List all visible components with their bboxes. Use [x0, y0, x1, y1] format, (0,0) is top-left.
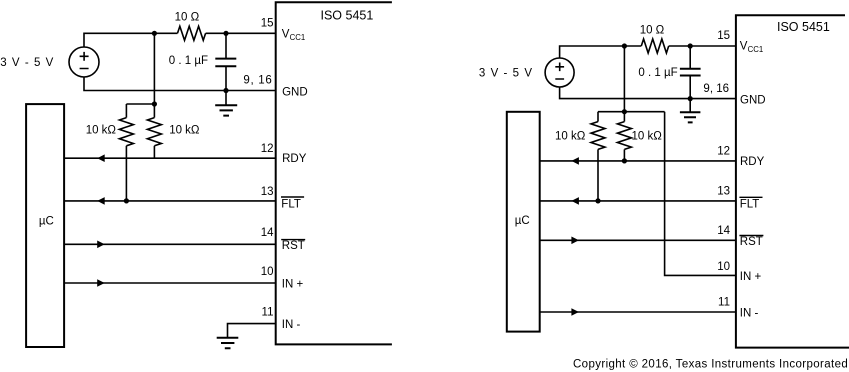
arrow into uC on FLT (right)	[571, 197, 579, 205]
svg-text:10: 10	[717, 261, 730, 273]
wire FLT net (right)	[540, 200, 736, 202]
arrow into uC on RDY (right)	[571, 157, 579, 165]
svg-text:13: 13	[717, 186, 730, 198]
svg-text:10 kΩ: 10 kΩ	[169, 125, 200, 137]
svg-text:RST: RST	[282, 240, 305, 252]
arrow into uC on RDY (left)	[97, 154, 105, 162]
svg-text:FLT: FLT	[281, 199, 301, 211]
svg-text:11: 11	[718, 297, 730, 309]
microcontroller block uC (right)	[507, 112, 540, 332]
junction dot: pullup top (right)	[622, 109, 627, 114]
arrow into uC on FLT (left)	[97, 197, 105, 205]
pin name FLT with overline (left)	[281, 197, 304, 211]
junction dot: capacitor/ground tap on GND rail (left)	[223, 88, 228, 93]
svg-text:V: V	[740, 40, 748, 52]
svg-text:ISO 5451: ISO 5451	[777, 20, 830, 34]
svg-text:12: 12	[717, 146, 730, 158]
wire: source bottom to GND pin (left GND rail)	[84, 77, 276, 91]
svg-text:10 Ω: 10 Ω	[640, 25, 665, 37]
junction dot: R5 bottom on FLT net (right)	[595, 198, 600, 203]
IC body U2 ISO 5451 (right, clipped at image edge)	[736, 15, 849, 347]
svg-text:CC1: CC1	[290, 33, 306, 42]
wire RDY net (left)	[64, 157, 276, 159]
voltage source V2 3V-5V (right)	[545, 58, 574, 87]
junction dot: capacitor/ground tap on GND rail (right)	[688, 96, 693, 101]
microcontroller block uC (left)	[26, 104, 64, 347]
resistor R2 10 kOhm (left pullup to FLT)	[119, 104, 133, 201]
svg-text:IN -: IN -	[282, 319, 301, 331]
wire FLT net (left)	[64, 200, 276, 202]
arrow toward IC on IN- (right)	[571, 308, 579, 316]
resistor R5 10 kOhm (right pullup to FLT)	[591, 112, 605, 201]
resistor R6 10 kOhm (right pullup to RDY)	[617, 112, 631, 161]
wire RST net (left)	[64, 243, 276, 245]
wire RDY net (right)	[540, 160, 736, 162]
wire IN+ net (left)	[64, 282, 276, 284]
svg-text:14: 14	[261, 227, 274, 239]
wire: resistor to VCC1 pin 15 (right)	[669, 45, 736, 47]
svg-text:9, 16: 9, 16	[703, 83, 729, 95]
svg-text:ISO 5451: ISO 5451	[321, 8, 374, 22]
svg-text:10 Ω: 10 Ω	[175, 11, 200, 23]
wire RST net (right)	[540, 239, 736, 241]
svg-text:0 . 1 µF: 0 . 1 µF	[638, 67, 677, 79]
resistor R1 10 Ohm (left)	[178, 26, 206, 40]
capacitor C2 0.1uF (right)	[680, 46, 701, 99]
wire: source top to resistor (left VCC rail)	[84, 33, 178, 47]
svg-text:10 kΩ: 10 kΩ	[86, 125, 117, 137]
wire: source top to resistor (right VCC rail)	[560, 46, 642, 58]
svg-text:IN +: IN +	[282, 279, 304, 291]
svg-text:GND: GND	[740, 94, 766, 106]
wire IN- net (right)	[540, 311, 736, 313]
svg-text:IN +: IN +	[740, 271, 762, 283]
svg-text:µC: µC	[515, 215, 530, 227]
junction dot: source/pullup tap on VCC rail (right)	[622, 43, 627, 48]
svg-text:CC1: CC1	[748, 45, 764, 54]
junction dot: capacitor top tap (right)	[688, 43, 693, 48]
wire: pullup top rail (left)	[126, 103, 154, 105]
svg-text:0 . 1 µF: 0 . 1 µF	[169, 55, 208, 67]
svg-text:IN -: IN -	[740, 308, 759, 320]
junction dot: capacitor top tap (left)	[223, 31, 228, 36]
svg-text:13: 13	[261, 186, 274, 198]
junction dot: R2 bottom on FLT net (left)	[124, 198, 129, 203]
svg-text:3 V - 5 V: 3 V - 5 V	[0, 57, 54, 69]
svg-text:15: 15	[717, 30, 730, 42]
capacitor C1 0.1uF (left)	[215, 33, 236, 90]
svg-text:RDY: RDY	[282, 153, 307, 165]
wire: source bottom to GND pin (right GND rail)	[560, 87, 736, 99]
wire IN- net to ground (left)	[228, 324, 276, 338]
pin name RST with overline (right)	[739, 236, 763, 249]
svg-text:µC: µC	[39, 216, 54, 228]
wire: resistor to VCC1 pin 15 (left)	[206, 32, 276, 34]
svg-text:10: 10	[261, 266, 274, 278]
svg-text:FLT: FLT	[740, 199, 760, 211]
wire: VCC tap down to pullup junction (left)	[153, 33, 155, 104]
IC body U1 ISO 5451 (left, open right side)	[276, 2, 392, 344]
svg-text:3 V - 5 V: 3 V - 5 V	[479, 67, 533, 79]
svg-text:V: V	[282, 28, 290, 40]
svg-text:12: 12	[261, 143, 274, 155]
resistor R3 10 kOhm (left pullup to RDY)	[147, 104, 161, 158]
ground symbol (left, below capacitor)	[215, 91, 237, 116]
wire: VCC tap down to pullup junction (right)	[623, 46, 625, 112]
svg-text:11: 11	[262, 307, 274, 319]
svg-text:RST: RST	[740, 236, 763, 248]
resistor R4 10 Ohm (right)	[641, 39, 668, 53]
svg-text:9, 16: 9, 16	[243, 75, 272, 87]
svg-text:14: 14	[717, 225, 730, 237]
svg-text:GND: GND	[282, 87, 308, 99]
voltage source V1 3V-5V (left)	[69, 47, 99, 77]
svg-text:Copyright © 2016, Texas Instru: Copyright © 2016, Texas Instruments Inco…	[573, 359, 848, 371]
arrow toward IC on IN+ (left)	[97, 279, 105, 287]
ground symbol (left, IN- pin)	[217, 338, 239, 348]
svg-text:10 kΩ: 10 kΩ	[632, 131, 663, 143]
junction dot: pullup top (left)	[152, 101, 157, 106]
junction dot: source/pullup tap on VCC rail (left)	[152, 31, 157, 36]
wire: pullup top rail extended to IN+ branch (right)	[598, 111, 665, 113]
ground symbol (right, below capacitor)	[680, 99, 701, 123]
svg-text:RDY: RDY	[740, 156, 765, 168]
arrow toward IC on RST (right)	[571, 237, 579, 245]
pin name RST with overline (left)	[281, 240, 305, 253]
junction dot: R6 bottom on RDY net (right)	[622, 158, 627, 163]
wire IN+ net tied to pullup rail (right)	[665, 112, 736, 276]
pin name FLT with overline (right)	[739, 197, 762, 210]
svg-text:10 kΩ: 10 kΩ	[555, 131, 586, 143]
arrow toward IC on RST (left)	[97, 241, 105, 249]
svg-text:15: 15	[261, 18, 274, 30]
